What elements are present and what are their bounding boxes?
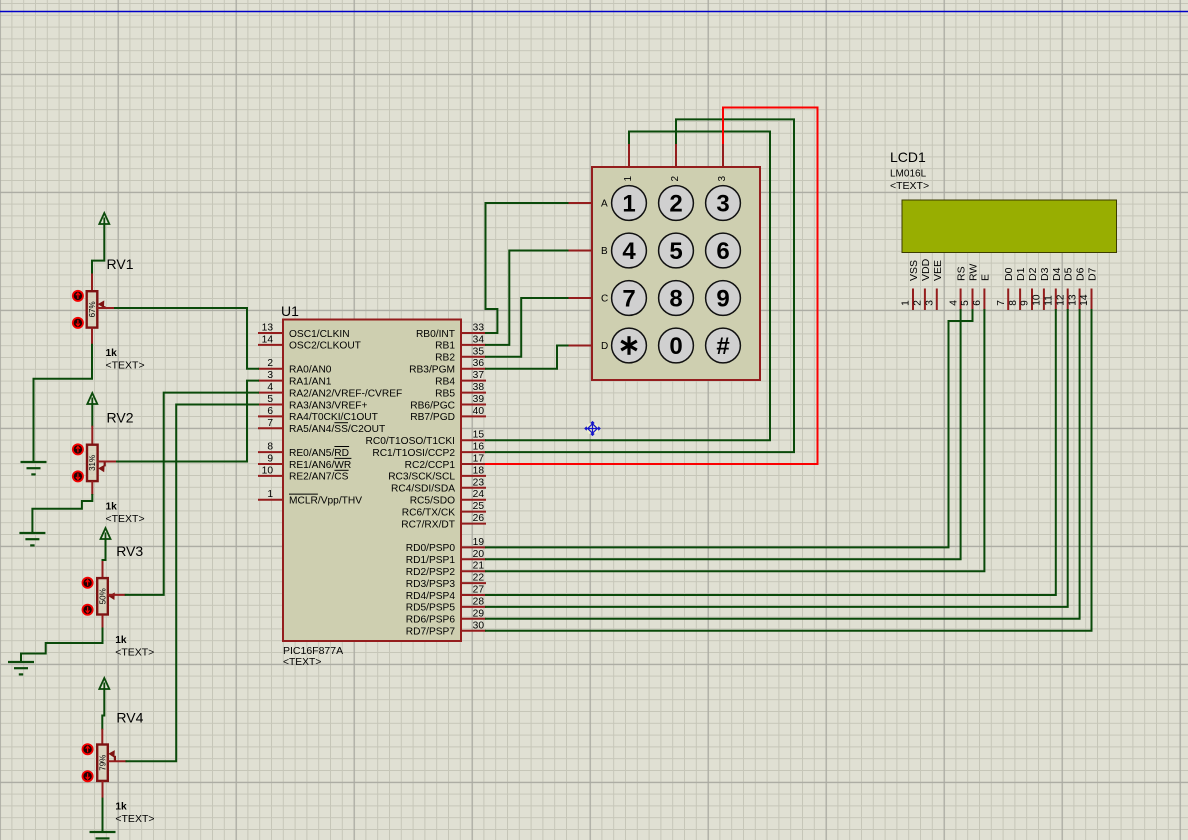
keypad button 5 bbox=[659, 233, 694, 268]
U1 pin 3 stub bbox=[258, 380, 283, 382]
wire RV2 wiper to U1 RA1 (pin 3) bbox=[117, 381, 258, 462]
LCD1 pin 13 stub bbox=[1079, 289, 1081, 311]
ground symbol (RV1) bbox=[21, 461, 47, 463]
U1 pin 35 stub bbox=[461, 356, 486, 358]
RV3 down adjust button bbox=[83, 605, 93, 615]
svg-text:VDD: VDD bbox=[920, 258, 932, 281]
svg-text:19: 19 bbox=[473, 537, 485, 548]
wire RV1 bottom to ground bbox=[34, 345, 93, 462]
keypad button 2 bbox=[659, 186, 694, 221]
svg-text:D: D bbox=[601, 341, 608, 352]
RV2 up adjust button bbox=[73, 444, 83, 454]
svg-text:PIC16F877A: PIC16F877A bbox=[283, 645, 343, 657]
RV2 top pin (red) bbox=[91, 426, 93, 446]
svg-text:B: B bbox=[601, 246, 608, 257]
svg-text:7: 7 bbox=[622, 286, 635, 313]
RV1 bottom pin (red) bbox=[91, 327, 93, 344]
LCD1 pin 8 stub bbox=[1019, 289, 1021, 311]
svg-text:OSC1/CLKIN: OSC1/CLKIN bbox=[289, 329, 350, 340]
LCD1 pin 11 stub bbox=[1055, 289, 1057, 311]
wire LCD1 D7 to U1 RD7 (pin 30) bbox=[486, 310, 1092, 631]
svg-text:2: 2 bbox=[670, 176, 681, 182]
keypad button 4 bbox=[612, 233, 647, 268]
U1 pin 7 stub bbox=[258, 427, 283, 429]
svg-text:40: 40 bbox=[473, 406, 485, 417]
svg-text:RB4: RB4 bbox=[435, 376, 455, 387]
svg-text:38: 38 bbox=[473, 382, 485, 393]
svg-text:1: 1 bbox=[267, 489, 273, 500]
svg-text:LM016L: LM016L bbox=[890, 169, 927, 180]
U1 pin 27 stub bbox=[461, 594, 486, 596]
U1 pin 24 stub bbox=[461, 499, 486, 501]
svg-text:<TEXT>: <TEXT> bbox=[106, 513, 145, 525]
svg-text:28: 28 bbox=[473, 596, 485, 607]
svg-text:RB7/PGD: RB7/PGD bbox=[410, 412, 455, 423]
svg-text:RC4/SDI/SDA: RC4/SDI/SDA bbox=[391, 484, 455, 495]
keypad button 1 bbox=[612, 186, 647, 221]
svg-text:7: 7 bbox=[267, 418, 273, 429]
svg-text:#: # bbox=[716, 333, 729, 360]
LCD1 pin 9 stub bbox=[1031, 289, 1033, 311]
svg-text:21: 21 bbox=[473, 561, 485, 572]
svg-text:A: A bbox=[601, 199, 608, 210]
svg-text:0: 0 bbox=[669, 333, 682, 360]
svg-text:RW: RW bbox=[968, 264, 980, 281]
U1 pin 21 stub bbox=[461, 570, 486, 572]
keypad button 9 bbox=[706, 281, 741, 316]
svg-text:26: 26 bbox=[473, 513, 485, 524]
RV2 down adjust button bbox=[73, 471, 83, 481]
svg-text:RD0/PSP0: RD0/PSP0 bbox=[406, 543, 456, 554]
wire RV4 bottom to ground bbox=[102, 799, 104, 832]
svg-text:36: 36 bbox=[473, 358, 485, 369]
RV3 wiper pin (red) bbox=[108, 594, 126, 596]
U1 pin 4 stub bbox=[258, 392, 283, 394]
svg-text:RA4/T0CKI/C1OUT: RA4/T0CKI/C1OUT bbox=[289, 412, 378, 423]
svg-text:30: 30 bbox=[473, 620, 485, 631]
keypad button star bbox=[612, 328, 647, 363]
LCD1 pin 4 stub bbox=[960, 289, 962, 311]
svg-text:D3: D3 bbox=[1039, 267, 1051, 281]
ground symbol (RV4, clipped at sheet bottom) bbox=[90, 831, 116, 833]
svg-text:D7: D7 bbox=[1087, 267, 1099, 281]
svg-text:RE1/AN6/WR: RE1/AN6/WR bbox=[289, 460, 351, 471]
wire keypad row A to U1 RB0 (pin 33) bbox=[486, 203, 568, 333]
wire RV1 wiper to U1 RA0 (pin 2) bbox=[115, 308, 258, 369]
svg-text:<TEXT>: <TEXT> bbox=[106, 360, 145, 372]
wire LCD1 D4 to U1 RD4 (pin 27) bbox=[486, 310, 1056, 595]
svg-text:29: 29 bbox=[473, 608, 485, 619]
LCD1 pin 10 stub bbox=[1043, 289, 1045, 311]
svg-text:17: 17 bbox=[473, 454, 485, 465]
svg-text:RV1: RV1 bbox=[107, 256, 134, 272]
svg-text:RC1/T1OSI/CCP2: RC1/T1OSI/CCP2 bbox=[372, 448, 455, 459]
LCD1 pin 5 stub bbox=[972, 289, 974, 311]
svg-text:RV3: RV3 bbox=[116, 543, 143, 559]
svg-text:9: 9 bbox=[267, 454, 273, 465]
svg-text:37: 37 bbox=[473, 370, 485, 381]
svg-text:13: 13 bbox=[1067, 294, 1078, 306]
svg-text:13: 13 bbox=[262, 323, 274, 334]
U1 pin 1 stub bbox=[258, 499, 283, 501]
wire keypad row B to U1 RB1 (pin 34) bbox=[486, 251, 568, 345]
keypad button 0 bbox=[659, 328, 694, 363]
svg-text:20: 20 bbox=[473, 549, 485, 560]
svg-text:4: 4 bbox=[267, 382, 273, 393]
RV2 wiper pin (red) bbox=[97, 461, 117, 463]
RV4 down adjust button bbox=[83, 771, 93, 781]
U1 pin 18 stub bbox=[461, 475, 486, 477]
wire RV2 bottom to ground bbox=[32, 495, 92, 533]
U1 pin 22 stub bbox=[461, 582, 486, 584]
U1 pin 19 stub bbox=[461, 546, 486, 548]
svg-text:<TEXT>: <TEXT> bbox=[115, 813, 154, 825]
wire LCD1 RW to U1 RD0 (pin 19) bbox=[486, 310, 973, 547]
RV4 up adjust button bbox=[83, 744, 93, 754]
svg-text:RD2/PSP2: RD2/PSP2 bbox=[406, 567, 456, 578]
potentiometer RV3 body bbox=[97, 578, 108, 614]
svg-text:79%: 79% bbox=[98, 755, 107, 771]
wire keypad row D to U1 RB3 (pin 36) bbox=[486, 346, 568, 369]
U1 pin 15 stub bbox=[461, 439, 486, 441]
U1 pin 30 stub bbox=[461, 630, 486, 632]
RV3 top pin (red) bbox=[102, 561, 104, 579]
svg-text:E: E bbox=[979, 274, 991, 281]
LCD1 display screen bbox=[902, 200, 1117, 253]
wire keypad column 2 to U1 RC1 (pin 16) bbox=[486, 119, 794, 452]
svg-text:RD5/PSP5: RD5/PSP5 bbox=[406, 603, 456, 614]
LCD1 pin 1 stub bbox=[912, 289, 914, 311]
svg-text:RB6/PGC: RB6/PGC bbox=[410, 400, 455, 411]
svg-text:8: 8 bbox=[1008, 300, 1019, 306]
svg-text:3: 3 bbox=[717, 176, 728, 182]
LCD1 pin 12 stub bbox=[1067, 289, 1069, 311]
svg-text:RC3/SCK/SCL: RC3/SCK/SCL bbox=[388, 472, 455, 483]
svg-text:23: 23 bbox=[473, 477, 485, 488]
svg-text:<TEXT>: <TEXT> bbox=[115, 647, 154, 659]
keypad button 7 bbox=[612, 281, 647, 316]
svg-text:5: 5 bbox=[267, 394, 273, 405]
svg-text:RA5/AN4/SS/C2OUT: RA5/AN4/SS/C2OUT bbox=[289, 424, 385, 435]
svg-text:14: 14 bbox=[262, 334, 274, 345]
svg-text:6: 6 bbox=[972, 300, 983, 306]
svg-text:1k: 1k bbox=[115, 635, 127, 646]
svg-text:18: 18 bbox=[473, 465, 485, 476]
keypad button hash bbox=[706, 328, 741, 363]
svg-text:RD1/PSP1: RD1/PSP1 bbox=[406, 555, 456, 566]
keypad column 3 pin stub bbox=[722, 143, 724, 167]
svg-text:15: 15 bbox=[473, 430, 485, 441]
keypad button 3 bbox=[706, 186, 741, 221]
wire LCD1 D6 to U1 RD6 (pin 29) bbox=[486, 310, 1080, 619]
svg-text:RV2: RV2 bbox=[107, 410, 134, 426]
svg-text:VEE: VEE bbox=[932, 260, 944, 281]
svg-text:5: 5 bbox=[669, 238, 682, 265]
U1 pin 16 stub bbox=[461, 451, 486, 453]
svg-text:RA1/AN1: RA1/AN1 bbox=[289, 376, 332, 387]
svg-text:33: 33 bbox=[473, 323, 485, 334]
svg-text:10: 10 bbox=[1032, 294, 1043, 306]
svg-text:RC0/T1OSO/T1CKI: RC0/T1OSO/T1CKI bbox=[366, 436, 455, 447]
potentiometer RV4 body bbox=[97, 745, 108, 781]
svg-text:10: 10 bbox=[262, 465, 274, 476]
svg-text:6: 6 bbox=[267, 406, 273, 417]
wire LCD1 D5 to U1 RD5 (pin 28) bbox=[486, 310, 1068, 607]
svg-text:RS: RS bbox=[956, 266, 968, 281]
RV1 wiper arrow bbox=[103, 306, 105, 308]
svg-text:11: 11 bbox=[1044, 295, 1055, 306]
wire keypad column 1 to U1 RC0 (pin 15) bbox=[486, 132, 770, 441]
RV2 bottom pin (red) bbox=[91, 481, 93, 495]
U1 pin 10 stub bbox=[258, 475, 283, 477]
svg-text:1k: 1k bbox=[106, 502, 118, 513]
wire RV4 wiper to U1 RA3 (pin 5) bbox=[127, 405, 259, 762]
U1 pin 39 stub bbox=[461, 404, 486, 406]
keypad row A pin stub bbox=[568, 202, 593, 204]
svg-text:67%: 67% bbox=[88, 301, 97, 317]
wire LCD1 E to U1 RD2 (pin 21) bbox=[486, 310, 984, 571]
svg-text:35: 35 bbox=[473, 346, 485, 357]
keypad body bbox=[592, 167, 760, 380]
RV4 bottom pin (red) bbox=[102, 781, 104, 799]
svg-text:27: 27 bbox=[473, 585, 485, 596]
keypad row D pin stub bbox=[568, 345, 593, 347]
power symbol above RV2 bbox=[87, 393, 97, 404]
U1 pin 38 stub bbox=[461, 392, 486, 394]
U1 pin 5 stub bbox=[258, 404, 283, 406]
svg-text:3: 3 bbox=[267, 370, 273, 381]
U1 pin 37 stub bbox=[461, 380, 486, 382]
sheet border (blue) bbox=[0, 11, 1188, 13]
U1 pin 6 stub bbox=[258, 415, 283, 417]
svg-text:14: 14 bbox=[1079, 294, 1090, 306]
U1 pin 9 stub bbox=[258, 463, 283, 465]
svg-text:MCLR/Vpp/THV: MCLR/Vpp/THV bbox=[289, 496, 362, 507]
wire LCD1 RS to U1 RD1 (pin 20) bbox=[486, 310, 961, 559]
potentiometer RV2 body bbox=[87, 445, 98, 481]
svg-text:RA0/AN0: RA0/AN0 bbox=[289, 365, 332, 376]
IC U1 PIC16F877A body bbox=[283, 320, 461, 642]
keypad column 2 pin stub bbox=[675, 143, 677, 167]
svg-text:RB5: RB5 bbox=[435, 388, 455, 399]
svg-text:RA2/AN2/VREF-/CVREF: RA2/AN2/VREF-/CVREF bbox=[289, 388, 402, 399]
RV1 wiper pin (red) bbox=[97, 307, 115, 309]
U1 pin 23 stub bbox=[461, 487, 486, 489]
svg-text:D6: D6 bbox=[1075, 267, 1087, 281]
cursor origin marker bbox=[585, 422, 600, 435]
svg-text:RD7/PSP7: RD7/PSP7 bbox=[406, 627, 456, 638]
U1 pin 8 stub bbox=[258, 451, 283, 453]
U1 pin 17 stub bbox=[461, 463, 486, 465]
LCD1 pin 2 stub bbox=[924, 289, 926, 311]
svg-text:3: 3 bbox=[925, 300, 936, 306]
keypad column 1 pin stub bbox=[628, 143, 630, 167]
svg-text:2: 2 bbox=[267, 358, 273, 369]
svg-text:6: 6 bbox=[716, 238, 729, 265]
keypad row B pin stub bbox=[568, 250, 593, 252]
svg-text:VSS: VSS bbox=[908, 260, 920, 281]
U1 pin 13 stub bbox=[258, 332, 283, 334]
svg-text:RB3/PGM: RB3/PGM bbox=[409, 365, 455, 376]
svg-text:U1: U1 bbox=[281, 303, 299, 319]
svg-text:RA3/AN3/VREF+: RA3/AN3/VREF+ bbox=[289, 400, 367, 411]
svg-text:D4: D4 bbox=[1051, 267, 1063, 281]
svg-text:RB2: RB2 bbox=[435, 353, 455, 364]
U1 pin 33 stub bbox=[461, 332, 486, 334]
svg-text:4: 4 bbox=[948, 300, 959, 306]
RV4 top pin (red) bbox=[101, 729, 103, 746]
LCD1 pin 3 stub bbox=[936, 289, 938, 311]
U1 pin 26 stub bbox=[461, 523, 486, 525]
svg-text:1: 1 bbox=[622, 191, 635, 218]
RV2 wiper arrow bbox=[104, 462, 106, 467]
svg-text:RB0/INT: RB0/INT bbox=[416, 329, 455, 340]
svg-text:3: 3 bbox=[716, 191, 729, 218]
svg-text:RC7/RX/DT: RC7/RX/DT bbox=[401, 519, 455, 530]
U1 pin 25 stub bbox=[461, 511, 486, 513]
RV4 wiper pin (red) bbox=[108, 760, 127, 762]
svg-text:<TEXT>: <TEXT> bbox=[283, 657, 321, 668]
U1 pin 2 stub bbox=[258, 368, 283, 370]
svg-text:16: 16 bbox=[473, 442, 485, 453]
wire power to RV2 top bbox=[91, 404, 93, 426]
wire power to RV4 top bbox=[102, 689, 104, 729]
svg-text:RE0/AN5/RD: RE0/AN5/RD bbox=[289, 448, 349, 459]
svg-text:1: 1 bbox=[623, 176, 634, 182]
svg-text:RD6/PSP6: RD6/PSP6 bbox=[406, 615, 456, 626]
keypad button 6 bbox=[706, 233, 741, 268]
svg-text:LCD1: LCD1 bbox=[890, 149, 926, 165]
svg-text:D1: D1 bbox=[1015, 267, 1027, 281]
RV1 top pin (red) bbox=[91, 274, 93, 293]
svg-text:RD3/PSP3: RD3/PSP3 bbox=[406, 579, 456, 590]
svg-text:RV4: RV4 bbox=[116, 710, 143, 726]
svg-text:9: 9 bbox=[716, 286, 729, 313]
LCD1 pin 7 stub bbox=[1007, 289, 1009, 311]
U1 pin 14 stub bbox=[258, 344, 283, 346]
svg-text:D5: D5 bbox=[1063, 267, 1075, 281]
svg-text:D0: D0 bbox=[1003, 267, 1015, 281]
svg-text:8: 8 bbox=[267, 442, 273, 453]
svg-text:4: 4 bbox=[622, 238, 636, 265]
RV3 up adjust button bbox=[83, 578, 93, 588]
svg-text:D2: D2 bbox=[1027, 267, 1039, 281]
svg-text:1: 1 bbox=[901, 300, 912, 306]
RV3 wiper arrow bbox=[114, 593, 116, 596]
keypad row C pin stub bbox=[568, 297, 593, 299]
svg-text:8: 8 bbox=[669, 286, 682, 313]
U1 pin 29 stub bbox=[461, 618, 486, 620]
svg-text:12: 12 bbox=[1055, 294, 1066, 306]
power symbol above RV4 bbox=[99, 678, 109, 689]
svg-text:31%: 31% bbox=[88, 455, 97, 471]
ground symbol (RV3) bbox=[8, 661, 34, 663]
svg-text:RB1: RB1 bbox=[435, 341, 455, 352]
svg-text:2: 2 bbox=[913, 300, 924, 306]
ground symbol (RV2) bbox=[19, 532, 45, 534]
svg-text:25: 25 bbox=[473, 501, 485, 512]
wire keypad column 3 to U1 RC2 (pin 17) (red) bbox=[486, 108, 818, 465]
svg-text:RD4/PSP4: RD4/PSP4 bbox=[406, 591, 456, 602]
RV3 bottom pin (red) bbox=[102, 615, 104, 629]
RV1 up adjust button bbox=[73, 291, 83, 301]
LCD1 pin 6 stub bbox=[983, 289, 985, 311]
svg-text:C: C bbox=[601, 294, 608, 305]
U1 pin 20 stub bbox=[461, 558, 486, 560]
RV4 wiper arrow bbox=[114, 756, 116, 762]
wire RV3 bottom to ground bbox=[21, 629, 103, 663]
svg-text:22: 22 bbox=[473, 573, 485, 584]
svg-text:24: 24 bbox=[473, 489, 485, 500]
power symbol above RV3 bbox=[101, 528, 111, 539]
LCD1 pin 14 stub bbox=[1091, 289, 1093, 311]
keypad button 8 bbox=[659, 281, 694, 316]
svg-text:5: 5 bbox=[960, 300, 971, 306]
U1 pin 40 stub bbox=[461, 415, 486, 417]
power symbol above RV1 bbox=[99, 213, 109, 224]
RV1 down adjust button bbox=[73, 318, 83, 328]
wire power to RV3 top bbox=[103, 539, 106, 562]
U1 pin 34 stub bbox=[461, 344, 486, 346]
svg-text:OSC2/CLKOUT: OSC2/CLKOUT bbox=[289, 341, 361, 352]
wire RV3 wiper to U1 RA2 (pin 4) bbox=[126, 393, 258, 595]
svg-text:RC2/CCP1: RC2/CCP1 bbox=[405, 460, 456, 471]
svg-text:39: 39 bbox=[473, 394, 485, 405]
potentiometer RV1 body bbox=[87, 291, 98, 327]
wire power to RV1 top bbox=[92, 224, 104, 274]
svg-text:RC6/TX/CK: RC6/TX/CK bbox=[402, 507, 455, 518]
svg-text:9: 9 bbox=[1020, 300, 1031, 306]
svg-text:50%: 50% bbox=[98, 588, 107, 604]
wire keypad row C to U1 RB2 (pin 35) bbox=[486, 298, 568, 357]
svg-text:RE2/AN7/CS: RE2/AN7/CS bbox=[289, 472, 349, 483]
U1 pin 28 stub bbox=[461, 606, 486, 608]
svg-text:2: 2 bbox=[669, 191, 682, 218]
svg-text:1k: 1k bbox=[106, 348, 118, 359]
svg-text:7: 7 bbox=[996, 300, 1007, 306]
svg-text:RC5/SDO: RC5/SDO bbox=[410, 496, 455, 507]
svg-text:<TEXT>: <TEXT> bbox=[890, 180, 929, 192]
U1 pin 36 stub bbox=[461, 368, 486, 370]
svg-text:34: 34 bbox=[473, 334, 485, 345]
svg-text:1k: 1k bbox=[115, 802, 127, 813]
